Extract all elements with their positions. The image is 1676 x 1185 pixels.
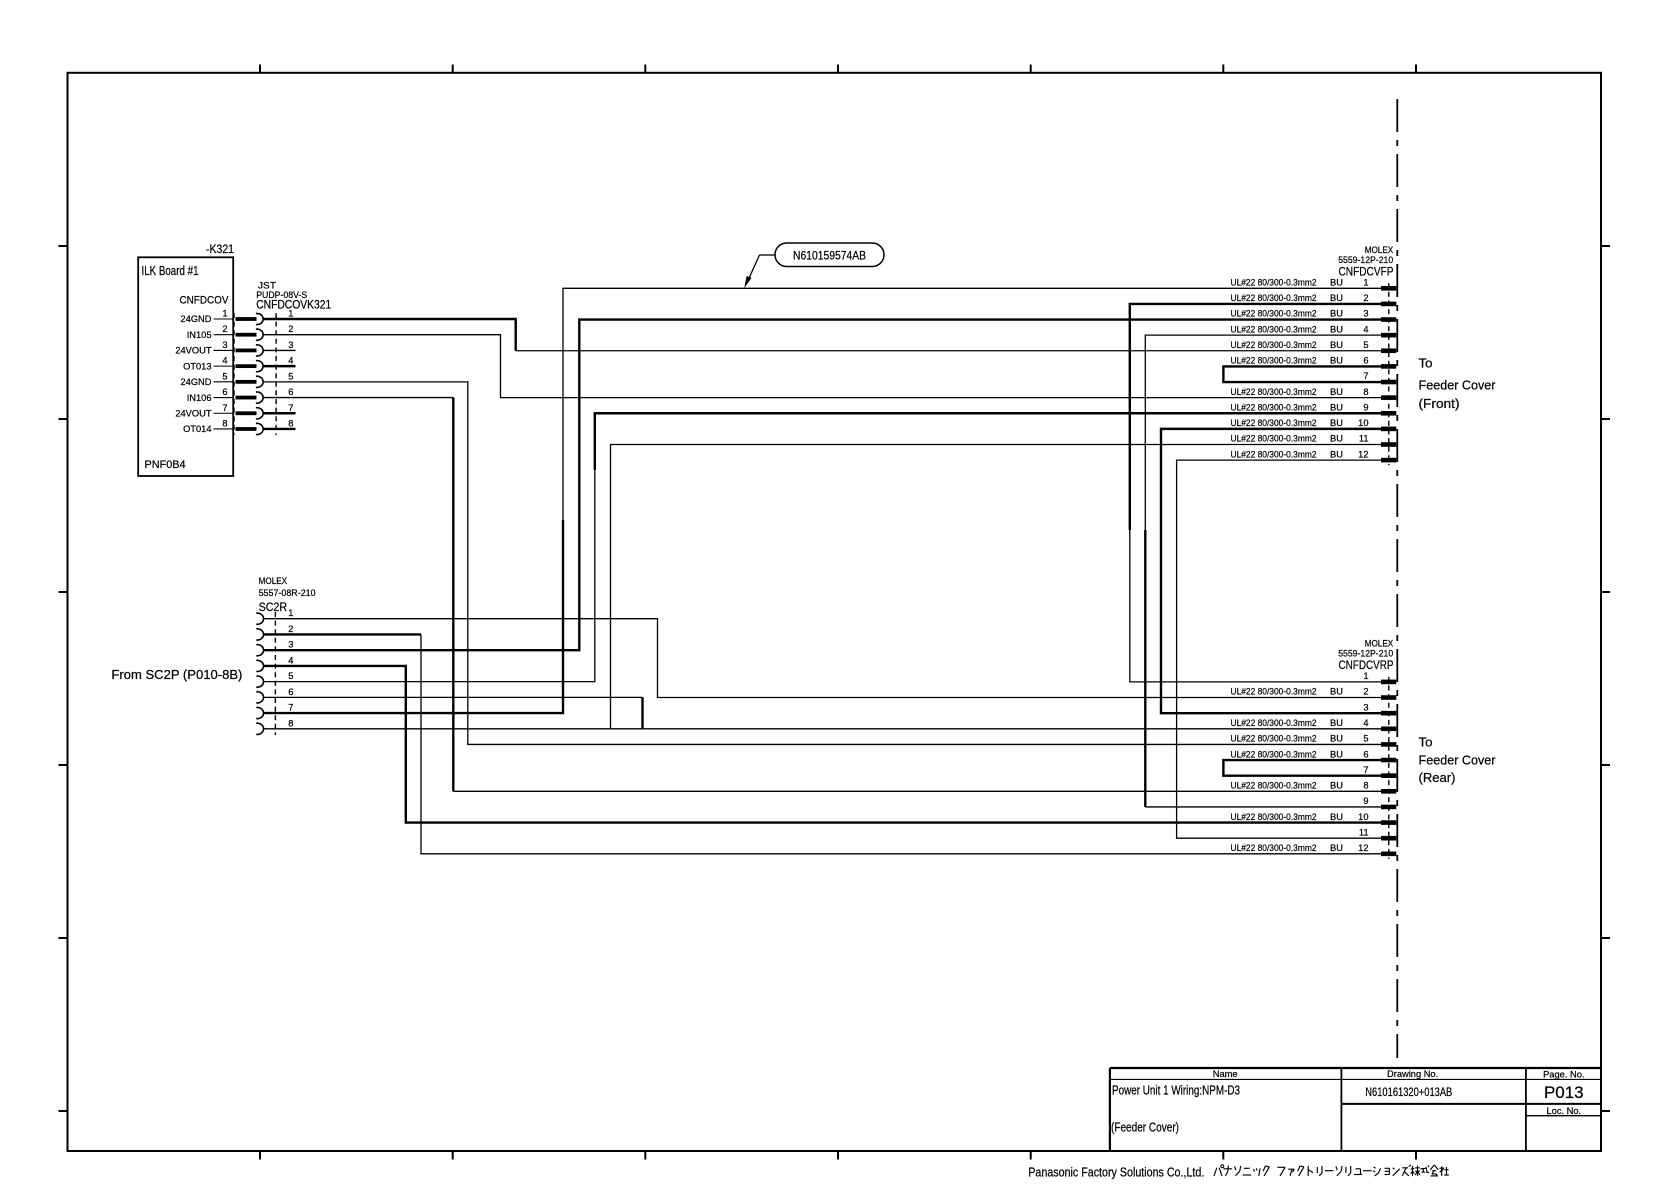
K321 pin 8 signal label OT014 (183, 424, 233, 434)
svg-text:6: 6 (288, 387, 293, 397)
K321 pin 2 number (board side) (222, 324, 227, 334)
svg-text:BU: BU (1330, 718, 1343, 728)
svg-text:8: 8 (1363, 781, 1368, 791)
connector SC2R pin sockets (arcs) (256, 613, 263, 734)
svg-text:5: 5 (288, 671, 293, 681)
svg-text:Feeder Cover: Feeder Cover (1419, 753, 1497, 768)
wire CNFDCVFP-4 to CNFDCVRP-9 (thin run) (1145, 335, 1381, 530)
svg-text:BU: BU (1330, 812, 1343, 822)
title block header Page. No. (1543, 1070, 1584, 1080)
svg-text:UL#22 80/300-0.3mm2: UL#22 80/300-0.3mm2 (1231, 812, 1317, 822)
CNFDCVFP pin 11 wire label UL#22 80/300-0.3mm2 BU (1231, 434, 1343, 444)
wire SC2R-1 to CNFDCVRP-2 (263, 619, 1381, 698)
svg-text:UL#22 80/300-0.3mm2: UL#22 80/300-0.3mm2 (1231, 387, 1317, 397)
svg-text:8: 8 (288, 418, 293, 428)
connector CNFDCOVK321 name (256, 300, 331, 312)
title block page number P013 (1544, 1083, 1584, 1102)
svg-text:4: 4 (1363, 324, 1368, 334)
wire SC2R-5 to CNFDCVFP-9 (thin run) (263, 470, 595, 682)
wire K321-6 to CNFDCVRP-8 (bold vertical) (452, 398, 454, 792)
CNFDCVRP pin 6 number (1363, 749, 1368, 759)
svg-text:BU: BU (1330, 278, 1343, 288)
wire K321-6 to CNFDCVRP-8 (thin run) (263, 397, 453, 399)
wire SC2R-6 jog to RP-4 net (bold vertical) (641, 697, 643, 728)
CNFDCVRP pin 7 number (1363, 765, 1368, 775)
SC2R pin 2 number (288, 624, 293, 634)
wire CNFDCVFP-4 to CNFDCVRP-9 (thin run to pin) (1145, 806, 1381, 808)
svg-text:1: 1 (1363, 671, 1368, 681)
wire K321-8 stub (263, 428, 296, 430)
SC2R pin 1 number (288, 608, 293, 618)
svg-text:(Feeder Cover): (Feeder Cover) (1111, 1120, 1179, 1135)
svg-text:8: 8 (222, 418, 227, 428)
connector CNFDCOVK321 housing dashed line (275, 313, 277, 435)
svg-text:BU: BU (1330, 402, 1343, 412)
svg-text:UL#22 80/300-0.3mm2: UL#22 80/300-0.3mm2 (1231, 843, 1317, 853)
svg-text:UL#22 80/300-0.3mm2: UL#22 80/300-0.3mm2 (1231, 324, 1317, 334)
border calibration ticks left (59, 246, 68, 1111)
label From SC2P (P010-8B) (111, 667, 242, 682)
svg-text:OT014: OT014 (183, 424, 211, 434)
svg-text:7: 7 (222, 403, 227, 413)
CNFDCVRP pin 5 number (1363, 734, 1368, 744)
CNFDCOVK321 pin 1 number (288, 309, 293, 319)
title block grid (1110, 1068, 1601, 1151)
SC2R pin 3 number (288, 640, 293, 650)
svg-text:BU: BU (1330, 781, 1343, 791)
svg-text:5559-12P-210: 5559-12P-210 (1338, 255, 1393, 265)
wire CNFDCVFP-10 to CNFDCVRP-3 (1161, 429, 1381, 713)
harness boundary chain line (1396, 99, 1398, 1058)
svg-text:7: 7 (288, 403, 293, 413)
CNFDCVFP pin 2 wire label UL#22 80/300-0.3mm2 BU (1231, 293, 1343, 303)
wire SC2R-7 to CNFDCVFP-1 (thin run) (563, 288, 1381, 520)
svg-text:BU: BU (1330, 687, 1343, 697)
K321 pin 8 number (board side) (222, 418, 227, 428)
svg-text:5557-08R-210: 5557-08R-210 (259, 588, 316, 598)
svg-text:7: 7 (288, 703, 293, 713)
CNFDCVFP pin 11 number (1359, 434, 1369, 444)
wire CNFDCVFP-12 to CNFDCVRP-11 (1177, 460, 1381, 838)
balloon leader line (744, 255, 775, 288)
wire SC2R-8 to CNFDCVRP-4 (263, 728, 1381, 730)
svg-text:To: To (1419, 735, 1433, 750)
svg-text:9: 9 (1363, 402, 1368, 412)
CNFDCOVK321 pin 5 number (288, 371, 293, 381)
CNFDCVRP pin 10 number (1358, 812, 1368, 822)
harness part number balloon N610159574AB (775, 243, 884, 267)
CNFDCVFP pin 1 wire label UL#22 80/300-0.3mm2 BU (1231, 278, 1343, 288)
svg-text:Feeder Cover: Feeder Cover (1419, 378, 1497, 393)
connector CNFDCOVK321 label PUDP-08V-S (256, 290, 307, 300)
svg-text:BU: BU (1330, 340, 1343, 350)
connector SC2R label MOLEX (259, 576, 288, 586)
svg-text:6: 6 (1363, 749, 1368, 759)
svg-text:UL#22 80/300-0.3mm2: UL#22 80/300-0.3mm2 (1231, 418, 1317, 428)
svg-text:Page. No.: Page. No. (1543, 1070, 1584, 1080)
CNFDCVRP pin 12 number (1358, 843, 1368, 853)
connector CNFDCVRP pin contacts (bars) (1381, 680, 1396, 857)
svg-text:5: 5 (288, 371, 293, 381)
svg-text:UL#22 80/300-0.3mm2: UL#22 80/300-0.3mm2 (1231, 718, 1317, 728)
svg-text:BU: BU (1330, 356, 1343, 366)
svg-text:UL#22 80/300-0.3mm2: UL#22 80/300-0.3mm2 (1231, 278, 1317, 288)
svg-text:3: 3 (288, 640, 293, 650)
svg-text:Name: Name (1213, 1069, 1238, 1079)
svg-text:To: To (1419, 356, 1433, 371)
svg-text:1: 1 (1363, 278, 1368, 288)
svg-text:5: 5 (222, 371, 227, 381)
svg-text:BU: BU (1330, 434, 1343, 444)
label PNF0B4 (145, 459, 186, 471)
svg-text:4: 4 (288, 655, 293, 665)
wire K321-3 stub (263, 349, 296, 351)
svg-text:ILK Board #1: ILK Board #1 (142, 263, 199, 278)
svg-text:From SC2P (P010-8B): From SC2P (P010-8B) (111, 667, 242, 682)
wire SC2R-2 to CNFDCVRP-12 (bold run) (263, 633, 421, 635)
wire jumper loop CNFDCVRP-6 to CNFDCVRP-7 (1223, 760, 1381, 776)
connector CNFDCVFP label 5559-12P-210 (1338, 255, 1393, 265)
wire K321-2 to CNFDCVFP-8 (263, 335, 1381, 398)
svg-text:2: 2 (1363, 687, 1368, 697)
K321 pin 4 signal label OT013 (183, 361, 233, 371)
CNFDCVFP pin 10 wire label UL#22 80/300-0.3mm2 BU (1231, 418, 1343, 428)
svg-text:UL#22 80/300-0.3mm2: UL#22 80/300-0.3mm2 (1231, 449, 1317, 459)
wire K321-6 to CNFDCVRP-8 (thin run to pin) (453, 790, 1381, 792)
CNFDCVFP pin 12 number (1358, 449, 1368, 459)
svg-text:BU: BU (1330, 309, 1343, 319)
svg-text:4: 4 (1363, 718, 1368, 728)
CNFDCVRP pin 2 wire label UL#22 80/300-0.3mm2 BU (1231, 687, 1343, 697)
connector SC2R name (259, 600, 288, 614)
connector CNFDCVRP label MOLEX (1365, 638, 1394, 648)
svg-text:6: 6 (222, 387, 227, 397)
wire K321-1 to CNFDCVFP-5 (thin run) (516, 350, 1381, 352)
title block header Name (1213, 1069, 1238, 1079)
CNFDCVRP pin 9 number (1363, 796, 1368, 806)
ILK board K321 outline (138, 257, 233, 476)
K321 pin 4 number (board side) (222, 356, 227, 366)
CNFDCVFP pin 8 number (1363, 387, 1368, 397)
wire SC2R-3 to CNFDCVFP-3 (263, 320, 1381, 651)
connector CNFDCOV label (180, 295, 229, 307)
wire branch RP-4 net to CNFDCVFP-11 (611, 445, 1382, 729)
SC2R pin 4 number (288, 655, 293, 665)
K321 pin 2 signal label IN105 (187, 330, 234, 340)
CNFDCVFP pin 4 number (1363, 324, 1368, 334)
CNFDCVRP pin 3 number (1363, 702, 1368, 712)
wire jumper loop CNFDCVFP-6 to CNFDCVFP-7 (1223, 366, 1381, 382)
CNFDCVFP pin 6 wire label UL#22 80/300-0.3mm2 BU (1231, 356, 1343, 366)
svg-text:BU: BU (1330, 449, 1343, 459)
CNFDCVRP pin 11 number (1359, 827, 1369, 837)
label To Feeder Cover (Front) (1419, 356, 1497, 412)
CNFDCVFP pin 2 number (1363, 293, 1368, 303)
svg-text:2: 2 (288, 624, 293, 634)
SC2R pin 6 number (288, 687, 293, 697)
CNFDCOVK321 pin 7 number (288, 403, 293, 413)
wire CNFDCVFP-2 to CNFDCVRP-1 (bold run) (1130, 304, 1381, 530)
CNFDCVRP pin 1 number (1363, 671, 1368, 681)
svg-text:5: 5 (1363, 734, 1368, 744)
svg-text:1: 1 (288, 608, 293, 618)
svg-text:8: 8 (1363, 387, 1368, 397)
svg-text:24VOUT: 24VOUT (175, 346, 211, 356)
CNFDCOVK321 pin 3 number (288, 340, 293, 350)
label To Feeder Cover (Rear) (1419, 735, 1497, 786)
SC2R pin 5 number (288, 671, 293, 681)
CNFDCVFP pin 8 wire label UL#22 80/300-0.3mm2 BU (1231, 387, 1343, 397)
svg-text:3: 3 (222, 340, 227, 350)
svg-text:PNF0B4: PNF0B4 (145, 459, 186, 471)
K321 pin 6 number (board side) (222, 387, 227, 397)
connector CNFDCVFP name (1339, 265, 1394, 279)
svg-text:Power Unit 1 Wiring:NPM-D3: Power Unit 1 Wiring:NPM-D3 (1112, 1083, 1240, 1098)
svg-text:12: 12 (1358, 449, 1368, 459)
connector CNFDCOVK321 pin contacts (bars) (236, 317, 257, 431)
K321 pin 5 signal label 24GND (180, 377, 233, 387)
svg-text:Drawing No.: Drawing No. (1387, 1069, 1438, 1079)
title block name (Feeder Cover) (1111, 1120, 1179, 1135)
connector CNFDCVRP name (1339, 658, 1394, 672)
K321 pin 3 signal label 24VOUT (175, 346, 233, 356)
svg-text:BU: BU (1330, 418, 1343, 428)
svg-text:PUDP-08V-S: PUDP-08V-S (256, 290, 307, 300)
svg-text:8: 8 (288, 718, 293, 728)
wire SC2R-2 to CNFDCVRP-12 (thin run) (421, 634, 1381, 853)
svg-text:UL#22 80/300-0.3mm2: UL#22 80/300-0.3mm2 (1231, 340, 1317, 350)
K321 pin 7 signal label 24VOUT (175, 408, 233, 418)
svg-text:SC2R: SC2R (259, 600, 288, 614)
svg-text:12: 12 (1358, 843, 1368, 853)
svg-text:-K321: -K321 (206, 244, 234, 256)
svg-text:2: 2 (222, 324, 227, 334)
CNFDCVRP pin 2 number (1363, 687, 1368, 697)
wire CNFDCVFP-4 to CNFDCVRP-9 (bold run) (1144, 530, 1146, 807)
CNFDCVRP pin 8 wire label UL#22 80/300-0.3mm2 BU (1231, 781, 1343, 791)
svg-text:UL#22 80/300-0.3mm2: UL#22 80/300-0.3mm2 (1231, 749, 1317, 759)
connector CNFDCVFP pin contacts (bars) (1381, 286, 1396, 462)
CNFDCVFP pin 4 wire label UL#22 80/300-0.3mm2 BU (1231, 324, 1343, 334)
CNFDCVFP pin 6 number (1363, 356, 1368, 366)
CNFDCVFP pin 9 number (1363, 402, 1368, 412)
svg-text:6: 6 (288, 687, 293, 697)
svg-text:Panasonic Factory Solutions Co: Panasonic Factory Solutions Co.,Ltd. (1028, 1165, 1204, 1180)
wire SC2R-4 to CNFDCVRP-10 (263, 666, 1381, 823)
svg-text:IN105: IN105 (187, 330, 212, 340)
connector CNFDCOVK321 label JST (258, 281, 276, 291)
SC2R pin 7 number (288, 703, 293, 713)
svg-text:IN106: IN106 (187, 393, 212, 403)
svg-text:3: 3 (288, 340, 293, 350)
svg-text:CNFDCVFP: CNFDCVFP (1339, 265, 1394, 279)
svg-text:2: 2 (288, 324, 293, 334)
K321 pin 3 number (board side) (222, 340, 227, 350)
title block name Power Unit 1 Wiring:NPM-D3 (1112, 1083, 1240, 1098)
title block header Drawing No. (1387, 1069, 1438, 1079)
K321 pin 6 signal label IN106 (187, 393, 234, 403)
svg-text:7: 7 (1363, 765, 1368, 775)
border calibration ticks right (1601, 246, 1610, 1111)
border calibration ticks bottom (260, 1151, 1416, 1160)
svg-text:BU: BU (1330, 293, 1343, 303)
svg-text:3: 3 (1363, 309, 1368, 319)
svg-text:24GND: 24GND (180, 377, 211, 387)
SC2R pin 8 number (288, 718, 293, 728)
svg-text:N610159574AB: N610159574AB (793, 251, 866, 263)
CNFDCVRP pin 4 number (1363, 718, 1368, 728)
svg-text:BU: BU (1330, 324, 1343, 334)
svg-text:3: 3 (1363, 702, 1368, 712)
svg-text:(Front): (Front) (1419, 396, 1460, 411)
company name latin (1028, 1165, 1204, 1180)
CNFDCVFP pin 10 number (1358, 418, 1368, 428)
svg-text:BU: BU (1330, 387, 1343, 397)
svg-text:UL#22 80/300-0.3mm2: UL#22 80/300-0.3mm2 (1231, 687, 1317, 697)
connector SC2R label 5557-08R-210 (259, 588, 316, 598)
CNFDCVFP pin 3 wire label UL#22 80/300-0.3mm2 BU (1231, 309, 1343, 319)
svg-text:BU: BU (1330, 843, 1343, 853)
svg-text:4: 4 (288, 356, 293, 366)
svg-text:N610161320+013AB: N610161320+013AB (1365, 1085, 1452, 1099)
svg-text:2: 2 (1363, 293, 1368, 303)
svg-text:10: 10 (1358, 418, 1368, 428)
connector CNFDCVFP label MOLEX (1365, 245, 1394, 255)
wire SC2R-7 to CNFDCVFP-1 (bold run) (263, 520, 563, 713)
CNFDCVRP pin 4 wire label UL#22 80/300-0.3mm2 BU (1231, 718, 1343, 728)
CNFDCOVK321 pin 4 number (288, 356, 293, 366)
CNFDCVRP pin 6 wire label UL#22 80/300-0.3mm2 BU (1231, 749, 1343, 759)
label -K321 (206, 244, 234, 256)
svg-text:4: 4 (222, 356, 227, 366)
svg-text:BU: BU (1330, 734, 1343, 744)
title block drawing number N610161320+013AB (1365, 1085, 1452, 1099)
svg-text:10: 10 (1358, 812, 1368, 822)
label ILK Board #1 (142, 263, 199, 278)
wire K321-7 stub (263, 412, 296, 414)
svg-text:BU: BU (1330, 749, 1343, 759)
svg-text:11: 11 (1359, 434, 1369, 444)
CNFDCOVK321 pin 8 number (288, 418, 293, 428)
svg-text:7: 7 (1363, 371, 1368, 381)
CNFDCVFP pin 3 number (1363, 309, 1368, 319)
svg-text:1: 1 (288, 309, 293, 319)
svg-text:UL#22 80/300-0.3mm2: UL#22 80/300-0.3mm2 (1231, 293, 1317, 303)
wire CNFDCVFP-2 to CNFDCVRP-1 (thin run) (1130, 530, 1381, 682)
svg-text:UL#22 80/300-0.3mm2: UL#22 80/300-0.3mm2 (1231, 434, 1317, 444)
connector CNFDCVRP housing dashed line (1388, 677, 1390, 859)
svg-text:P013: P013 (1544, 1083, 1584, 1102)
wire K321-5 to CNFDCVRP-5 (263, 382, 1381, 745)
CNFDCVRP pin 8 number (1363, 781, 1368, 791)
connector CNFDCVRP label 5559-12P-210 (1338, 648, 1393, 658)
CNFDCVRP pin 12 wire label UL#22 80/300-0.3mm2 BU (1231, 843, 1343, 853)
K321 pin 5 number (board side) (222, 371, 227, 381)
company name japanese (stroke art) (1214, 1165, 1449, 1176)
wire SC2R-5 to CNFDCVFP-9 (bold run) (595, 413, 1381, 470)
CNFDCOVK321 pin 2 number (288, 324, 293, 334)
wire K321-1 to CNFDCVFP-5 (bold run) (263, 319, 516, 351)
svg-text:UL#22 80/300-0.3mm2: UL#22 80/300-0.3mm2 (1231, 734, 1317, 744)
connector CNFDCVFP housing dashed line (1388, 283, 1390, 465)
svg-text:5559-12P-210: 5559-12P-210 (1338, 648, 1393, 658)
svg-text:CNFDCVRP: CNFDCVRP (1339, 658, 1394, 672)
K321 pin 1 number (board side) (222, 309, 227, 319)
CNFDCVFP pin 1 number (1363, 278, 1368, 288)
connector CNFDCOVK321 board-side housing dashed line (233, 313, 235, 435)
svg-text:UL#22 80/300-0.3mm2: UL#22 80/300-0.3mm2 (1231, 356, 1317, 366)
svg-text:MOLEX: MOLEX (259, 576, 288, 586)
CNFDCVFP pin 5 number (1363, 340, 1368, 350)
CNFDCVRP pin 5 wire label UL#22 80/300-0.3mm2 BU (1231, 734, 1343, 744)
svg-text:1: 1 (222, 309, 227, 319)
svg-text:Loc. No.: Loc. No. (1546, 1106, 1581, 1116)
svg-text:5: 5 (1363, 340, 1368, 350)
CNFDCOVK321 pin 6 number (288, 387, 293, 397)
wire K321-4 stub (263, 365, 296, 367)
title block header Loc. No. (1546, 1106, 1581, 1116)
svg-text:UL#22 80/300-0.3mm2: UL#22 80/300-0.3mm2 (1231, 309, 1317, 319)
svg-text:(Rear): (Rear) (1419, 770, 1456, 785)
CNFDCVFP pin 7 number (1363, 371, 1368, 381)
svg-text:6: 6 (1363, 356, 1368, 366)
svg-text:MOLEX: MOLEX (1365, 245, 1394, 255)
CNFDCVFP pin 12 wire label UL#22 80/300-0.3mm2 BU (1231, 449, 1343, 459)
svg-text:MOLEX: MOLEX (1365, 638, 1394, 648)
svg-text:11: 11 (1359, 827, 1369, 837)
svg-text:UL#22 80/300-0.3mm2: UL#22 80/300-0.3mm2 (1231, 402, 1317, 412)
border calibration ticks top (260, 65, 1416, 73)
wire SC2R-6 jog to RP-4 net (thin run) (263, 696, 642, 698)
svg-text:UL#22 80/300-0.3mm2: UL#22 80/300-0.3mm2 (1231, 781, 1317, 791)
K321 pin 7 number (board side) (222, 403, 227, 413)
svg-text:9: 9 (1363, 796, 1368, 806)
svg-text:24GND: 24GND (180, 314, 211, 324)
svg-text:24VOUT: 24VOUT (175, 408, 211, 418)
CNFDCVRP pin 10 wire label UL#22 80/300-0.3mm2 BU (1231, 812, 1343, 822)
svg-text:CNFDCOVK321: CNFDCOVK321 (256, 300, 331, 312)
svg-text:OT013: OT013 (183, 361, 211, 371)
connector CNFDCOVK321 pin sockets (arcs) (256, 313, 263, 434)
svg-text:CNFDCOV: CNFDCOV (180, 295, 229, 307)
K321 pin 1 signal label 24GND (180, 314, 233, 324)
CNFDCVFP pin 5 wire label UL#22 80/300-0.3mm2 BU (1231, 340, 1343, 350)
connector SC2R housing dashed line (274, 612, 276, 735)
CNFDCVFP pin 9 wire label UL#22 80/300-0.3mm2 BU (1231, 402, 1343, 412)
